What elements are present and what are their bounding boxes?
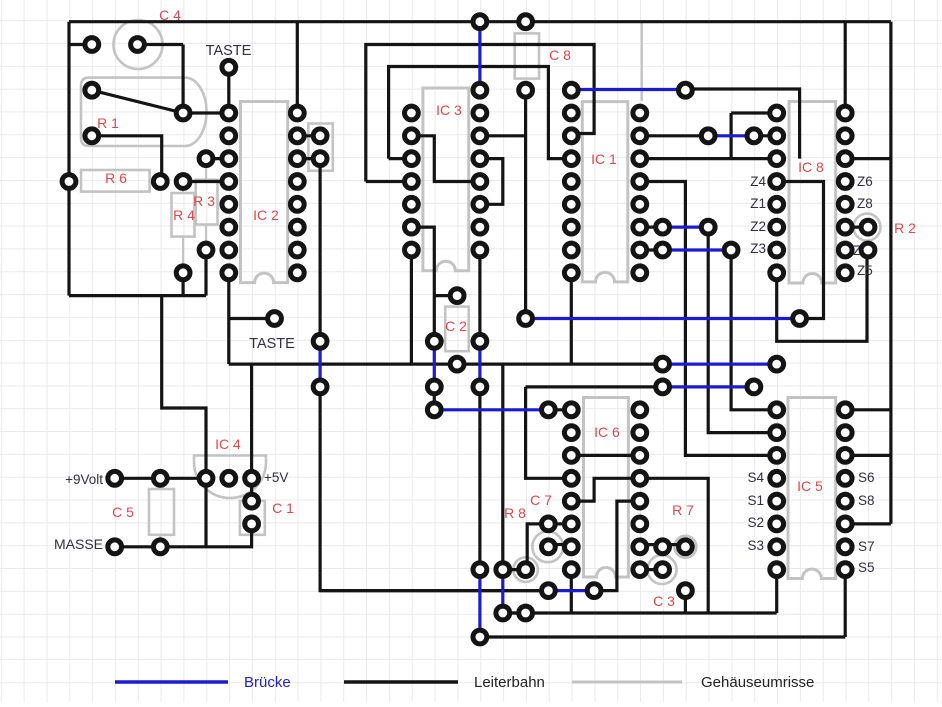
pad IC5 left pin row20 <box>770 471 784 485</box>
wire C30 pad to IC8 pin2 <box>754 134 777 137</box>
wire C17R12 pad stub <box>434 294 457 297</box>
pad IC6 left pin row24 <box>564 563 578 577</box>
pad IC3 left pin row7 <box>405 175 419 189</box>
pad C27R25 <box>679 584 693 598</box>
IC1 body outline <box>582 102 628 282</box>
label Z7 (behind pad) <box>853 243 869 258</box>
label Z3 <box>750 241 766 256</box>
blue jumper R25 C21 to C23 <box>548 589 594 592</box>
label S6 <box>858 470 875 485</box>
label +5V <box>264 470 288 485</box>
svg-text:TASTE: TASTE <box>249 336 295 352</box>
wire C20 vertical down to IC6 pin <box>526 387 572 478</box>
pad IC8 right pin row5 <box>838 129 852 143</box>
pad IC8 right pin row9 <box>838 220 852 234</box>
wire C23R25 to C24 up to IC6 pin R21 <box>594 501 640 590</box>
IC6 body outline <box>584 398 629 578</box>
pad C19R26 on trace <box>496 606 510 620</box>
pad C30R16 blue end <box>747 380 761 394</box>
svg-text:IC 4: IC 4 <box>215 436 241 452</box>
svg-text:IC 1: IC 1 <box>591 151 617 167</box>
pad IC1 left pin row11 <box>564 266 578 280</box>
pad IC8 left pin row10 <box>770 243 784 257</box>
pad IC1 right pin row4 <box>633 106 647 120</box>
pad IC8 left pin row9 <box>770 220 784 234</box>
pad C18R27 on bottom trace <box>473 630 487 644</box>
pad IC8 right pin row10 <box>838 243 852 257</box>
wire R15 branch down to C19 pad <box>501 364 504 569</box>
pad C7 left <box>542 540 556 554</box>
blue jumper C16 pads <box>433 341 436 387</box>
resistor R4 body outline <box>172 182 195 273</box>
pad IC5 right pin row17 <box>838 403 852 417</box>
wire IC1 pin5 to C28 pad <box>640 134 708 137</box>
capacitor C4 body circle <box>114 20 163 69</box>
wire C11R16 down then right to C21R25 <box>320 387 548 591</box>
resistor R2 body circle <box>854 214 881 241</box>
svg-text:Z2: Z2 <box>750 219 766 234</box>
label S8 <box>858 493 875 508</box>
pad IC3 left pin row10 <box>405 243 419 257</box>
pad IC6 right pin row19 <box>633 449 647 463</box>
wire IC1 pin6 long link to IC8 pin1 net <box>640 157 777 160</box>
resistor R6 body outline <box>81 170 150 192</box>
wire C20 vertical C8 pad down to blue start <box>524 90 527 318</box>
pad IC3 left pin row6 <box>405 152 419 166</box>
blue jumper C11 pads <box>319 341 322 387</box>
label IC8 <box>798 159 824 175</box>
wire IC3 right pin6 U-link to pin8 <box>480 159 503 205</box>
pad IC2 left pin row10 <box>222 243 236 257</box>
wire C16R16 link to C16R17 <box>433 387 436 410</box>
pad IC6 right pin row20 <box>633 471 647 485</box>
pad IC6 right pin row21 <box>633 494 647 508</box>
wire R15 trace down to IC4 +5V pin <box>250 364 253 478</box>
wire C22R24 drop to R26 trace <box>570 570 573 613</box>
pad IC8 left pin row11 <box>770 266 784 280</box>
blue jumper C18 pads <box>478 341 481 387</box>
pad IC1 left pin row10 <box>564 243 578 257</box>
pad on top border C18 <box>473 15 487 29</box>
pad on top border C20 <box>519 15 533 29</box>
pad C26R16 <box>656 380 670 394</box>
pad C16R17 <box>427 403 441 417</box>
blue jumper long R13 trace <box>526 317 800 320</box>
pad IC6 right pin row18 <box>633 426 647 440</box>
svg-text:IC 8: IC 8 <box>798 159 824 175</box>
pad IC6 left pin row18 <box>564 426 578 440</box>
svg-text:IC 5: IC 5 <box>797 478 823 494</box>
IC8 body outline <box>789 102 836 284</box>
wire block pad down to C11R14 <box>319 159 322 342</box>
pad R4 top <box>176 175 190 189</box>
pad IC1 left pin row7 <box>564 175 578 189</box>
pad TASTE lower <box>268 312 282 326</box>
pad IC1 right pin row6 <box>633 152 647 166</box>
wire R26 trace <box>503 611 777 614</box>
pad +9Volt <box>108 471 122 485</box>
label C5 <box>112 504 134 520</box>
pad IC2 left pin row5 <box>222 129 236 143</box>
capacitor C1 body outline <box>240 501 265 535</box>
blue jumper IC1 pin3 to C27 pad <box>571 88 685 91</box>
pad IC5 left pin row18 <box>770 426 784 440</box>
label C7 <box>530 492 552 508</box>
pad C28R5 <box>701 129 715 143</box>
svg-text:C 2: C 2 <box>445 318 467 334</box>
wire right border into IC5 pad S-row <box>845 522 891 525</box>
IC3 body outline <box>423 88 469 271</box>
pad IC6 right pin row23 <box>633 540 647 554</box>
wire pad pair link R26 left <box>503 611 526 614</box>
pad C29R10 <box>724 243 738 257</box>
wire IC6 pin link C21-C22 top <box>548 408 571 411</box>
wire IC8 right pin3 to border <box>845 157 891 160</box>
pad IC2 left pin row11 <box>222 266 236 280</box>
pad +9Volt second <box>153 471 167 485</box>
pad IC8 left pin row8 <box>770 197 784 211</box>
pad C28R9 <box>701 220 715 234</box>
wire top border trace <box>69 20 891 23</box>
blue jumper C19R24 down to C19R26 <box>501 570 504 613</box>
pad IC1 right pin row8 <box>633 197 647 211</box>
wire R2 pad link <box>845 226 868 229</box>
label R1 <box>97 115 119 131</box>
pad R1 lower arm <box>85 129 99 143</box>
pad R8 body <box>519 563 533 577</box>
wire IC4 pin3 down to C1 <box>250 478 253 501</box>
pad IC3 right pin row3 <box>473 83 487 97</box>
svg-text:S3: S3 <box>747 538 764 553</box>
label +9Volt <box>65 472 103 487</box>
wire IC2 pin11 down left column <box>227 273 230 364</box>
wire IC2 to block link row5 <box>297 134 320 137</box>
pad C1 bottom <box>245 517 259 531</box>
pad IC1 left pin row4 <box>564 106 578 120</box>
pad IC4 pin2 <box>222 471 236 485</box>
svg-text:S6: S6 <box>858 470 875 485</box>
pad IC2 right pin row10 <box>290 243 304 257</box>
pad block top <box>313 129 327 143</box>
pad IC5 left pin row21 <box>770 494 784 508</box>
pad IC3 right pin row7 <box>473 175 487 189</box>
pad IC1 left pin row6 <box>564 152 578 166</box>
label C8 <box>549 47 571 63</box>
wire IC5 right pin to border 2 <box>845 454 891 457</box>
pad IC6 left pin row17 <box>564 403 578 417</box>
wire border to pad C1R1 <box>69 43 92 46</box>
pad IC1 right pin row9 <box>633 220 647 234</box>
svg-text:S5: S5 <box>858 560 875 575</box>
pad C21R22 <box>542 517 556 531</box>
label TASTE upper <box>206 43 252 59</box>
pad C21R25 <box>542 584 556 598</box>
legend label Leiterbahn <box>474 674 545 691</box>
pad C26R9 <box>656 220 670 234</box>
wire R16 trace from C20 to C26 <box>526 385 663 388</box>
wire top border branch down to IC8 pin (C34,R4) <box>844 22 847 113</box>
pad IC5 right pin row21 <box>838 494 852 508</box>
blue jumper C28R5 to C30R5 <box>708 134 754 137</box>
label C1 <box>272 500 294 516</box>
pad IC5 left pin row22 <box>770 517 784 531</box>
wire R4 bottom pad stub <box>182 273 185 296</box>
wire C7 pad link C21-C22 row23 <box>548 543 571 546</box>
pad C1R1 <box>85 38 99 52</box>
label Z8 <box>857 196 873 211</box>
pad C19R24 <box>496 563 510 577</box>
pad C26R15 <box>656 357 670 371</box>
pad C26R23 <box>656 540 670 554</box>
pad IC5 right pin row23 <box>838 540 852 554</box>
pad C11R14 <box>313 334 327 348</box>
pad IC2 left pin row4 <box>222 106 236 120</box>
pad IC8 right pin row4 <box>838 106 852 120</box>
pad IC3 left pin row4 <box>405 106 419 120</box>
pad IC1 right pin row10 <box>633 243 647 257</box>
pad C30R5 <box>747 129 761 143</box>
label S2 <box>747 515 764 530</box>
pad C18R16 <box>473 380 487 394</box>
label IC6 <box>594 424 620 440</box>
label R7 <box>672 502 694 518</box>
wire C27R25 pad drop to R26 trace <box>684 591 687 613</box>
pad IC5 left pin row24 <box>770 563 784 577</box>
pad IC8 right pin row7 <box>838 175 852 189</box>
blue jumper R17 trace C16 to C21 <box>434 408 548 411</box>
pad C20 blue start <box>519 312 533 326</box>
label IC5 <box>797 478 823 494</box>
potentiometer R1 body outline <box>81 78 207 146</box>
label Z5 <box>857 263 873 278</box>
label Z2 <box>750 219 766 234</box>
label S1 <box>747 493 764 508</box>
svg-text:Z4: Z4 <box>750 174 766 189</box>
pad MASSE <box>108 540 122 554</box>
legend blue jumper line <box>115 680 228 683</box>
pad IC2 left pin row8 <box>222 197 236 211</box>
svg-text:IC 2: IC 2 <box>253 207 279 223</box>
pad IC1 left pin row5 <box>564 129 578 143</box>
pad IC2 right pin row9 <box>290 220 304 234</box>
wire C29 vertical down to IC5 pin1 <box>731 250 777 410</box>
wire IC1 pin7 down C27 to IC5 pin <box>640 182 777 456</box>
wire IC3 right pin5 to C20 vertical <box>480 134 526 137</box>
wire IC8 pin1 arm <box>731 111 777 114</box>
svg-text:S2: S2 <box>747 515 764 530</box>
pad IC1 right pin row7 <box>633 175 647 189</box>
svg-text:C 7: C 7 <box>530 492 552 508</box>
pad C2 left <box>427 334 441 348</box>
pad IC3 right pin row5 <box>473 129 487 143</box>
resistor R3 body outline <box>196 159 218 250</box>
pad C8 bottom <box>519 83 533 97</box>
wire IC5 right pin S-top to border <box>845 408 891 411</box>
pad C3 body <box>656 563 670 577</box>
svg-text:C 4: C 4 <box>159 7 181 23</box>
wire top border down to IC2 pin16 <box>296 22 299 113</box>
wire C7 pad link C21-C22 row22 <box>548 522 571 525</box>
svg-text:S1: S1 <box>747 493 764 508</box>
pad IC4 pin3 <box>245 471 259 485</box>
legend label Bruecke <box>244 674 291 691</box>
wire R15 branch up to IC1 pin <box>570 273 573 364</box>
label S5 <box>858 560 875 575</box>
wire TASTE pad down to IC2 pin 1 <box>227 67 230 113</box>
pad C26R10 <box>656 243 670 257</box>
legend black trace line <box>344 680 458 683</box>
pad IC8 left pin row4 <box>770 106 784 120</box>
pad R7 body <box>679 540 693 554</box>
capacitor C2 body outline <box>434 307 480 352</box>
svg-text:+9Volt: +9Volt <box>65 472 103 487</box>
pad R3 bottom <box>199 243 213 257</box>
label IC2 <box>253 207 279 223</box>
wire IC6 right pin R20 to C23 down to C22R21 <box>571 478 640 501</box>
wire IC4 pin1 down to MASSE trace <box>204 478 207 547</box>
wire left border bottom run R12 <box>69 294 206 297</box>
pad IC1 left pin row3 <box>564 83 578 97</box>
pad IC2 right pin row4 <box>290 106 304 120</box>
wire R3 top pad link <box>206 157 229 160</box>
label C2 <box>445 318 467 334</box>
label R6 <box>105 170 127 186</box>
pad IC6 left pin row22 <box>564 517 578 531</box>
svg-text:R 1: R 1 <box>97 115 119 131</box>
pad IC3 right pin row10 <box>473 243 487 257</box>
blue jumper IC1 pin9 to C28 pad <box>663 226 709 229</box>
wire C28 vertical down to IC5 pin2 <box>708 227 777 433</box>
wire net riser at C29 <box>729 113 732 159</box>
label C3 <box>653 593 675 609</box>
wire IC3 pin10 down to R15 trace <box>410 250 413 364</box>
pad IC3 left pin row8 <box>405 197 419 211</box>
svg-text:+5V: +5V <box>264 470 288 485</box>
wire R1 diagonal arm <box>92 90 183 113</box>
wire C5 column down to R1 wiper pad <box>182 45 185 114</box>
label Z4 <box>750 174 766 189</box>
pad TASTE upper <box>222 60 236 74</box>
label IC4 <box>215 436 241 452</box>
pad IC5 right pin row24 <box>838 563 852 577</box>
label IC3 <box>436 102 462 118</box>
pad IC4 pin1 <box>199 471 213 485</box>
pad C23R25 <box>587 584 601 598</box>
wire R3 horizontal from C27 pad to C32 <box>685 89 799 159</box>
resistor R7 body circle <box>674 536 696 558</box>
svg-text:C 5: C 5 <box>112 504 134 520</box>
pad IC8 left pin row6 <box>770 152 784 166</box>
pad C31R15 blue end <box>770 357 784 371</box>
pad IC3 right pin row9 <box>473 220 487 234</box>
pad IC3 right pin row4 <box>473 106 487 120</box>
pad IC6 left pin row21 <box>564 494 578 508</box>
wire R25 black from C11 riser to C21 pad <box>320 589 548 592</box>
wire IC3 pin9 to C16 column down <box>411 227 434 341</box>
pad IC3 right pin row8 <box>473 197 487 211</box>
wire IC2 to block link row6 <box>297 157 320 160</box>
pad IC5 right pin row20 <box>838 471 852 485</box>
pad R2 upper <box>861 220 875 234</box>
svg-text:R 2: R 2 <box>894 220 916 236</box>
wire R4 top pad to IC2 pin <box>183 180 229 183</box>
pad junction C17 on R15 <box>450 357 464 371</box>
pad C18R24 <box>473 563 487 577</box>
pad IC5 right pin row22 <box>838 517 852 531</box>
label IC1 <box>591 151 617 167</box>
pad C4 capacitor <box>131 38 145 52</box>
wire IC8 pin8 to R2 lower pad <box>777 250 867 341</box>
pad C17R12 <box>450 289 464 303</box>
pad R1 wiper <box>176 106 190 120</box>
capacitor C5 body outline <box>149 478 174 547</box>
wire C4 pad to C5 column <box>138 43 184 46</box>
pad IC2 right pin row11 <box>290 266 304 280</box>
svg-text:Z3: Z3 <box>750 241 766 256</box>
label TASTE lower <box>249 336 295 352</box>
IC5 body outline <box>788 398 836 579</box>
pad IC6 left pin row20 <box>564 471 578 485</box>
wire R27 trace up to S5 pad <box>844 570 847 637</box>
svg-text:S4: S4 <box>747 470 764 485</box>
svg-text:Z1: Z1 <box>750 196 766 211</box>
pad C2 right <box>473 334 487 348</box>
pad IC5 left pin row19 <box>770 449 784 463</box>
svg-text:R 3: R 3 <box>193 193 215 209</box>
pad IC2 right pin row8 <box>290 197 304 211</box>
label Z6 <box>857 174 873 189</box>
pad IC1 left pin row9 <box>564 220 578 234</box>
pad IC5 right pin row18 <box>838 426 852 440</box>
label R3 <box>193 193 215 209</box>
svg-text:C 8: C 8 <box>549 47 571 63</box>
IC2 body outline <box>241 102 288 283</box>
wire R1-trace drop to IC3 pin <box>366 180 412 183</box>
wire IC3 pin5 over to C16 down to IC3 right pin <box>411 136 480 182</box>
wire left border trace <box>67 22 70 296</box>
pad IC2 right pin row5 <box>290 129 304 143</box>
blue jumper C18R24 down to C18R27 <box>478 570 481 637</box>
wire C21R22 to R8 pad <box>527 524 548 562</box>
pad IC6 right pin row24 <box>633 563 647 577</box>
label S7 <box>858 539 875 554</box>
wire +9Volt pad links <box>115 477 206 480</box>
pad IC1 right pin row11 <box>633 266 647 280</box>
pad IC2 right pin row7 <box>290 175 304 189</box>
pad IC8 left pin row5 <box>770 129 784 143</box>
wire R1 wiper to TASTE column <box>183 111 229 114</box>
pad IC8 left pin row7 <box>770 175 784 189</box>
pad IC5 left pin row23 <box>770 540 784 554</box>
pad R2 lower <box>861 243 875 257</box>
wire IC6 right pin R20 right to C28 down to R26 trace <box>640 478 708 613</box>
resistor R8 body circle <box>513 557 538 582</box>
svg-text:Leiterbahn: Leiterbahn <box>474 674 545 691</box>
pad IC5 left pin row17 <box>770 403 784 417</box>
pad IC3 left pin row9 <box>405 220 419 234</box>
pad IC6 right pin row17 <box>633 403 647 417</box>
svg-text:R 8: R 8 <box>504 505 526 521</box>
svg-text:TASTE: TASTE <box>206 43 252 59</box>
svg-text:R 6: R 6 <box>105 170 127 186</box>
svg-text:C 1: C 1 <box>272 500 294 516</box>
pad R6 left on border <box>62 175 76 189</box>
IC4 body outline (TO-92 shape) <box>194 456 266 499</box>
wire C18R10 down to C2 pad <box>478 250 481 341</box>
svg-text:R 7: R 7 <box>672 502 694 518</box>
svg-text:S7: S7 <box>858 539 875 554</box>
svg-text:Gehäuseumrisse: Gehäuseumrisse <box>701 674 814 691</box>
